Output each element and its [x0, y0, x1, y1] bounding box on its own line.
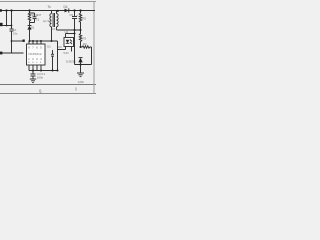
- wire input vertical A: [6, 11, 8, 26]
- junction dots: [0, 9, 82, 71]
- wire output bottom bus: [75, 64, 92, 66]
- capacitor C4: [32, 71, 34, 74]
- svg-text:G: G: [28, 62, 30, 64]
- wire input neutral: [0, 25, 12, 27]
- IC top pins: [28, 41, 30, 44]
- optocoupler U2: [64, 38, 74, 47]
- capacitor C5: [74, 11, 76, 17]
- svg-text:R2: R2: [83, 17, 87, 21]
- ground secondary: [77, 72, 84, 74]
- wire drain vertical: [51, 27, 53, 41]
- diode D1 clamp: [29, 23, 31, 26]
- wire top rail: [0, 10, 95, 12]
- caption band bottom line: [0, 93, 96, 95]
- svg-text:GND: GND: [78, 80, 84, 84]
- svg-text:5.6V: 5.6V: [64, 51, 70, 55]
- wire gnd bus: [29, 70, 58, 72]
- page border right: [93, 2, 95, 94]
- page border top: [0, 1, 96, 3]
- wire ground stem: [80, 65, 82, 73]
- svg-text:U2: U2: [65, 30, 69, 34]
- wire opto bottom right: [71, 47, 73, 52]
- resistor R4 horizontal: [81, 46, 92, 48]
- svg-text:Ts: Ts: [48, 5, 52, 9]
- wire feedback vertical: [57, 41, 59, 71]
- resistor R3: [79, 30, 81, 47]
- terminal rail: [0, 9, 2, 12]
- resistor R1 clamp: [29, 11, 31, 14]
- wire mid left: [12, 40, 24, 42]
- wire drain bus: [30, 40, 58, 42]
- svg-text:100n: 100n: [37, 76, 44, 80]
- diode D4: [65, 9, 69, 13]
- IC U1 box: [27, 44, 46, 65]
- svg-text:R4: R4: [83, 42, 87, 46]
- capacitor C3: [52, 50, 54, 54]
- wire opto top: [65, 34, 67, 38]
- svg-text:C3: C3: [58, 45, 62, 49]
- labels: [13, 5, 87, 94]
- wire bottom left: [0, 52, 24, 54]
- svg-text:R3: R3: [83, 37, 87, 41]
- resistor R2: [80, 11, 82, 14]
- svg-text:C2: C2: [36, 17, 40, 21]
- svg-text:U1: U1: [47, 45, 51, 49]
- svg-text:C5: C5: [70, 13, 74, 17]
- wire opto bottom left: [65, 47, 67, 50]
- zener D5: [79, 57, 83, 59]
- ground primary: [30, 78, 36, 80]
- capacitor C1: [11, 11, 13, 29]
- page border bottom: [0, 84, 96, 86]
- svg-text:§: §: [75, 87, 77, 91]
- transformer T1 secondary: [56, 11, 58, 14]
- svg-text:D1: D1: [31, 25, 35, 29]
- svg-text:NCP1012: NCP1012: [29, 52, 42, 56]
- svg-text:10u: 10u: [13, 31, 18, 35]
- svg-text:1:0.1: 1:0.1: [52, 27, 58, 31]
- svg-text:1N4937: 1N4937: [32, 13, 42, 17]
- transformer core: [52, 13, 54, 27]
- svg-text:Lp=1.5: Lp=1.5: [43, 19, 52, 23]
- svg-text:D4: D4: [64, 5, 68, 9]
- IC bottom pins: [28, 65, 30, 71]
- terminal input top: [0, 23, 3, 26]
- capacitor C2 clamp: [30, 12, 35, 14]
- svg-text:1N5231: 1N5231: [66, 60, 76, 64]
- transformer T1 primary: [51, 11, 53, 14]
- terminal input bottom: [0, 52, 2, 55]
- wire secondary return: [57, 29, 81, 31]
- svg-text:G: G: [32, 62, 34, 64]
